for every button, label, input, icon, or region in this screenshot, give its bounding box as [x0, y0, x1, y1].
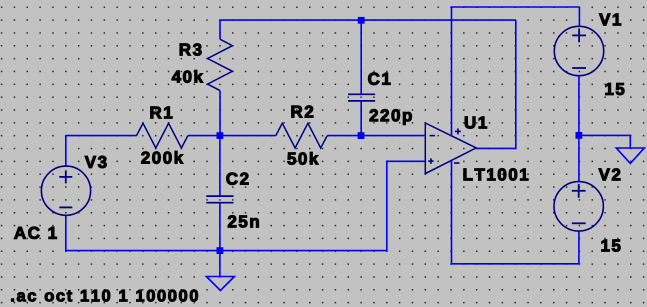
value AC 1: [14, 227, 56, 239]
op-amp V- power mark: [454, 162, 460, 164]
wire: V1 bottom through mid node to V2 top: [578, 76, 580, 182]
value 200k: [141, 151, 183, 164]
ground symbol (left): [206, 277, 234, 291]
voltage source V3 circle: [41, 166, 90, 215]
wire: R1 right lead to node: [188, 135, 220, 137]
label R3: [180, 44, 202, 56]
V3 plus sign: [59, 170, 72, 183]
wire: V+ pin riser to top rail: [452, 7, 580, 136]
label R1: [151, 107, 173, 119]
wire: V3 bottom to ground rail: [66, 215, 220, 250]
junction node: V1/V2/ground arm: [576, 132, 583, 139]
value 220p: [370, 109, 412, 124]
label C2: [227, 173, 249, 185]
capacitor C1 bottom lead: [360, 101, 362, 136]
capacitor C2 plates: [206, 196, 233, 203]
resistor R3 body (vertical): [208, 39, 233, 90]
value 25n: [228, 215, 259, 227]
wire: mid node to right ground: [579, 135, 630, 148]
wire: top rail corner down to V1 top: [578, 7, 580, 26]
value 15 (V2): [602, 240, 621, 252]
wire: bottom rail to op-amp + input riser: [220, 161, 425, 250]
junction node: C1 top / feedback: [358, 17, 365, 24]
junction node: R1/R3/R2/C2: [217, 132, 224, 139]
ground stub under C2 node: [219, 251, 221, 277]
junction node: bottom rail / C2 / ground: [217, 247, 224, 254]
capacitor C1 plates: [348, 94, 375, 101]
value 50k: [288, 152, 319, 165]
junction node: C1 bottom / R2 / inverting input: [358, 132, 365, 139]
op-amp V+ power mark: [455, 128, 461, 134]
label V2: [599, 169, 621, 181]
resistor R2 body: [276, 123, 327, 148]
V1 minus sign: [572, 67, 586, 69]
wire: V3 top to R1 row (vertical): [65, 136, 67, 167]
label R2: [292, 106, 314, 118]
wire: node to R2 left lead: [220, 135, 276, 137]
label U1: [465, 117, 487, 129]
resistor R1 body: [137, 123, 188, 148]
wire: V3 column to R1 left lead (horizontal): [66, 135, 137, 137]
wire: V2 bottom to V- rail corner: [578, 231, 580, 264]
voltage source V1 circle: [554, 26, 603, 75]
wire: R3 top lead and corner at top rail: [220, 20, 516, 39]
wire: R2 right lead to C1 node and op-amp inverting input: [327, 135, 425, 137]
ground symbol (right): [616, 148, 644, 163]
op-amp inverting input mark: [430, 135, 436, 137]
capacitor C2 bottom lead: [219, 203, 221, 251]
spice directive .ac: [11, 290, 197, 302]
V3 minus sign: [59, 206, 72, 208]
wire: op-amp output to feedback riser: [476, 20, 516, 148]
V2 plus sign: [572, 184, 586, 198]
label V3: [85, 156, 107, 168]
value 15 (V1): [606, 83, 625, 95]
V1 plus sign: [572, 29, 586, 43]
wire: R3 bottom lead to node: [219, 91, 221, 136]
value 40k: [172, 70, 203, 83]
capacitor C1 top lead: [360, 20, 362, 94]
label V1: [599, 14, 621, 26]
label LT1001: [464, 168, 529, 180]
wire: V- pin drop: [452, 160, 579, 263]
V2 minus sign: [572, 222, 586, 224]
op-amp non-inverting input mark: [428, 158, 434, 164]
voltage source V2 circle: [554, 182, 603, 231]
capacitor C2 top lead: [219, 136, 221, 196]
label C1: [368, 73, 390, 85]
op-amp U1 triangle: [425, 123, 476, 174]
